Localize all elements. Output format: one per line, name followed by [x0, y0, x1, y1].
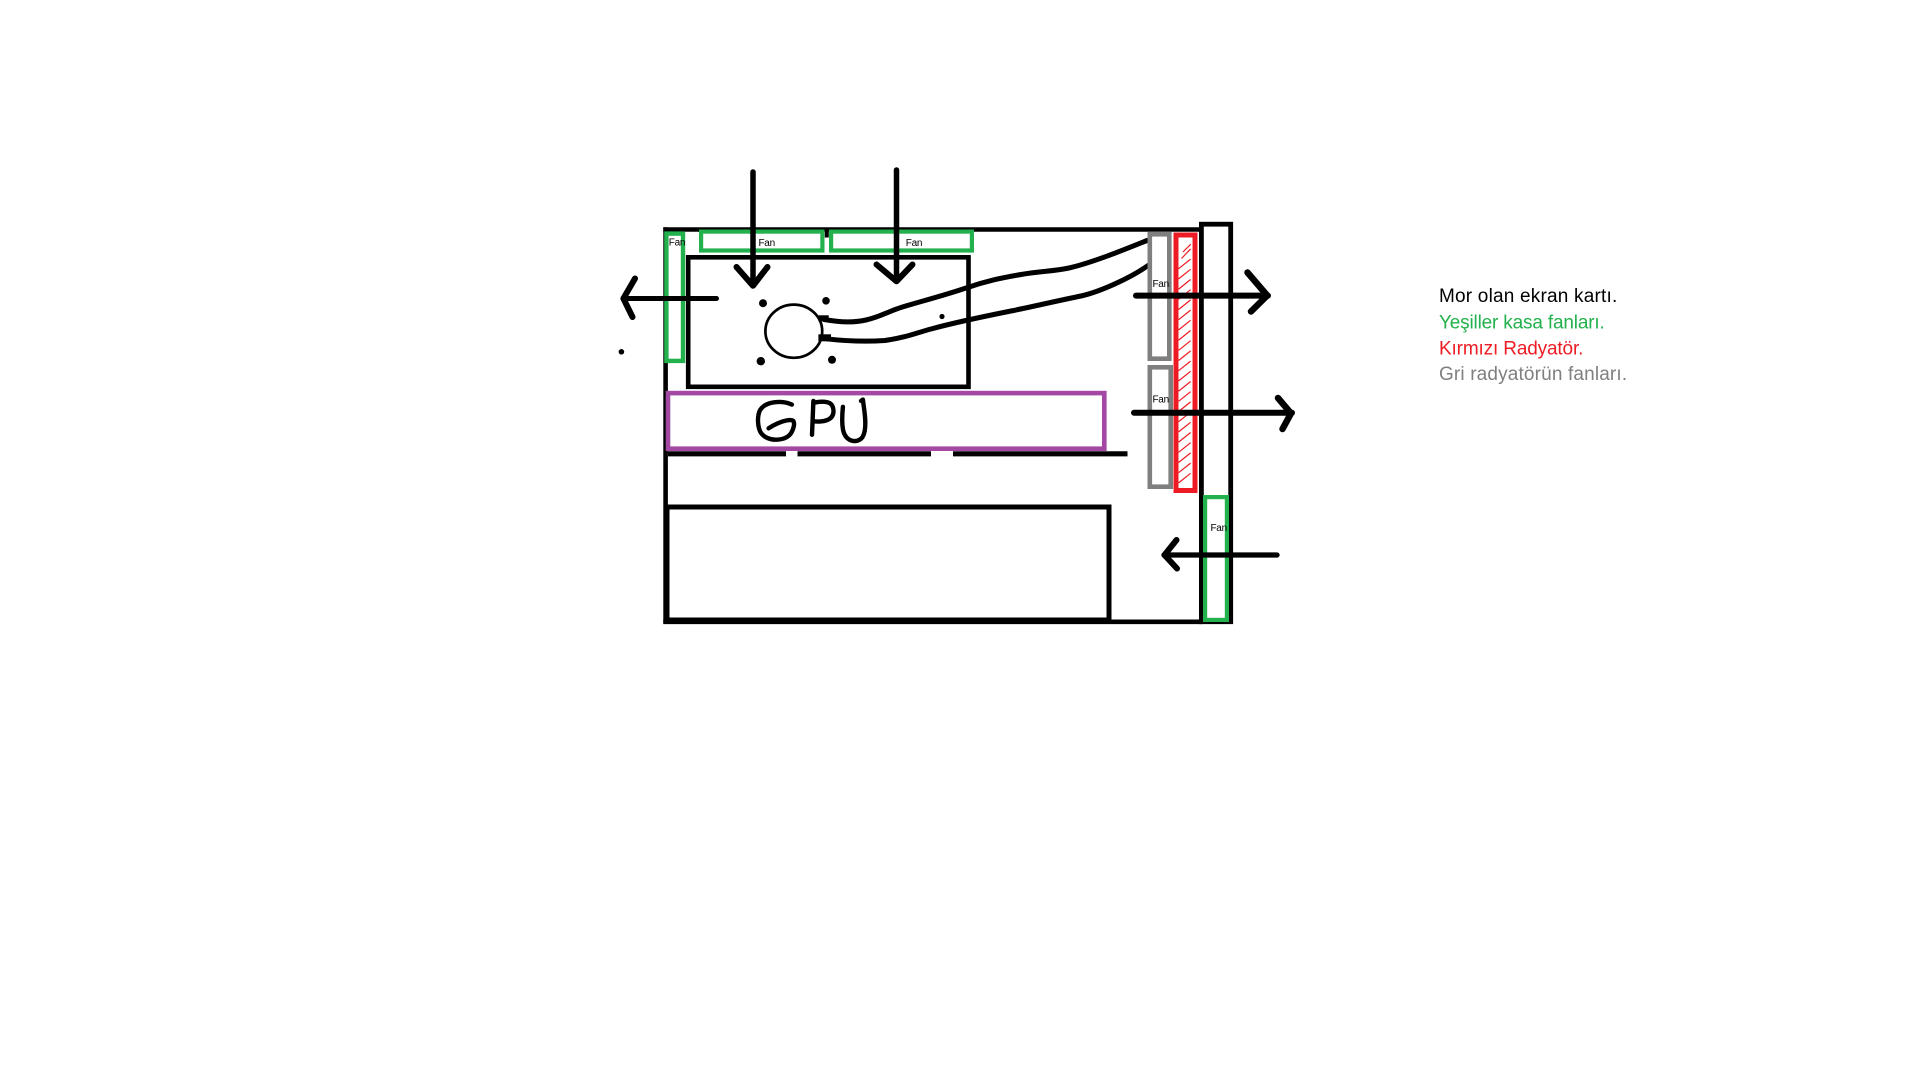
case bottom line — [663, 619, 1202, 624]
svg-text:Fan: Fan — [1153, 395, 1169, 406]
mount dot top-right — [822, 297, 830, 305]
letter G — [758, 402, 794, 440]
arrow right 1 (top rear exhaust) — [1136, 273, 1268, 312]
arrow down 1 (top intake) — [737, 172, 768, 286]
case top line — [663, 227, 1200, 232]
fan (case, left vertical) — [666, 234, 685, 361]
tube fitting square upper — [818, 315, 828, 321]
dashed line under GPU — [668, 451, 1128, 456]
svg-text:Mor olan ekran kartı.: Mor olan ekran kartı. — [1439, 286, 1617, 307]
mount dot top-left — [759, 299, 767, 307]
CPU pump circle — [765, 305, 822, 358]
mount dot bottom-left — [757, 357, 765, 365]
legend text — [1439, 286, 1627, 385]
letter P — [812, 401, 833, 435]
case left wall — [663, 227, 668, 623]
motherboard block — [688, 257, 968, 387]
dot on tube mid — [939, 314, 944, 319]
fan (case, top B) — [831, 232, 972, 251]
svg-text:Gri radyatörün fanları.: Gri radyatörün fanları. — [1439, 364, 1627, 385]
GPU card (purple) — [668, 393, 1104, 449]
GPU handwritten text — [758, 400, 865, 441]
tube lower — [826, 266, 1148, 342]
radiator (red) — [1176, 235, 1195, 491]
radiator fan gray lower — [1150, 367, 1171, 486]
fan (case, rear bottom green) — [1205, 497, 1227, 620]
mount dot bottom-right — [828, 356, 836, 364]
svg-text:Fan: Fan — [1211, 523, 1227, 534]
svg-text:Kırmızı Radyatör.: Kırmızı Radyatör. — [1439, 339, 1583, 360]
svg-text:Fan: Fan — [1153, 279, 1169, 290]
letter U — [842, 400, 865, 441]
arrow left (front exhaust) — [623, 279, 717, 318]
radiator fan gray upper — [1150, 234, 1170, 358]
svg-text:Fan: Fan — [759, 238, 775, 249]
svg-text:Yeşiller kasa fanları.: Yeşiller kasa fanları. — [1439, 312, 1605, 333]
svg-text:Fan: Fan — [906, 238, 922, 249]
rear column — [1201, 224, 1230, 622]
arrow right 2 (rear exhaust) — [1134, 398, 1292, 429]
arrow down 2 (top intake) — [877, 170, 913, 281]
fan (case, top A) — [701, 232, 822, 251]
dot left outside case — [619, 349, 625, 355]
arrow left bottom (rear intake) — [1164, 540, 1277, 569]
PSU shroud box — [667, 507, 1109, 620]
svg-text:Fan: Fan — [669, 238, 685, 249]
tube upper — [824, 241, 1147, 322]
tube fitting square lower — [818, 334, 831, 341]
tick between top fans — [825, 228, 829, 238]
